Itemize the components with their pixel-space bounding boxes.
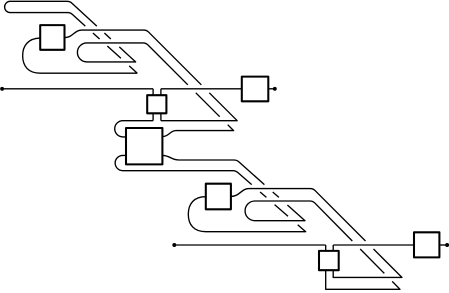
- wire C'-diagonal segment below lower line, corner, wire1' back to K2 bottom-right stub: [333, 249, 402, 277]
- wire S1-diagonal segment between main line and wire1: [196, 93, 220, 117]
- wire C-diagonal segment below main line, corner, wire1 back to small box K1 stub: [161, 93, 237, 121]
- wire main upper line from left terminal to small box K1: [2, 88, 153, 90]
- wire lower main line from box B3' to right terminal: [439, 244, 447, 246]
- coupon B2: [206, 184, 231, 210]
- wire S1'-diagonal segment between lower line and wire1': [360, 249, 384, 273]
- terminal dot upper-left: [0, 87, 4, 91]
- wire diagonal a2 segment from E-bottom corner up to under S1-bottom: [129, 66, 137, 73]
- wire lower main line from left terminal to small box K2: [174, 244, 325, 246]
- wire D2 diagonal segment between S1'-top and S1'-bottom: [275, 205, 288, 217]
- terminal dot lower-left: [172, 243, 176, 247]
- wire diagonal a2 segment between S1-bottom and S1-top: [107, 46, 121, 58]
- wire small box K1 bottom-right stub: [160, 113, 162, 120]
- wire main upper line from box B3 to right terminal: [268, 88, 275, 90]
- coupon K2 (small box on lower line): [319, 251, 339, 270]
- wire upper hook loop (top cap strand): [5, 1, 97, 26]
- coupon B1: [40, 25, 64, 50]
- wire D2 diagonal segment between C'-line and S1'-top: [260, 192, 266, 197]
- wire small box K2 top-left stub: [325, 245, 327, 251]
- wire small box K1 top-right stub: [160, 89, 162, 95]
- wire D1: box U right-bottom s-curve, horizontal, diagonal to under C'-line: [162, 155, 264, 184]
- terminal dot lower-right: [445, 243, 449, 247]
- wire small box K1 bottom-left stub: [152, 113, 154, 120]
- wire diagonal a1 segment into S1-bottom corner, S1 stadium and S1-top line: [77, 43, 147, 62]
- wire diagonal a1 segment between C-line and S1-top: [104, 33, 110, 39]
- wire U-turn from box U left-bottom, return line, D2 start corner: [115, 155, 252, 184]
- wire S1-diagonal landing, horizontal left, s-curve into box U right-top: [162, 125, 233, 137]
- wire E loop: box B1 left side, big arc, bottom line to a2 corner: [23, 38, 138, 73]
- coupon U (central box): [126, 128, 162, 164]
- wire S1'-diagonal landing, bottom line back to small box K2 bottom-left stub: [326, 270, 400, 289]
- wire main upper line from small box K1 to box B3: [161, 88, 242, 90]
- coupon B3: [242, 77, 268, 102]
- wire C' strand: box B2 right s-curve, horizontal, C'-diagonal to lower line: [231, 189, 366, 241]
- wire D1 diagonal landing, S1'-bottom, stadium cap, S1'-top line: [245, 201, 315, 221]
- wire small box K1 top-left stub: [152, 89, 154, 95]
- terminal dot upper-right: [273, 87, 277, 91]
- wire C strand: box B1 right side s-curve, horizontal, C-diagonal to line: [65, 30, 202, 85]
- wire U-turn from K1 bottom-left stub into box U left-top: [115, 121, 153, 137]
- wire S1'-diagonal from S1'-top corner down to lower main line: [315, 203, 353, 241]
- wire small box K2 top-right stub: [332, 245, 334, 251]
- wire D2 diagonal landing on E'-bottom, line left, big arc up to box B2 left: [188, 197, 305, 232]
- coupon B3': [414, 232, 439, 257]
- wire lower main line from small box K2 to box B3': [333, 244, 414, 246]
- coupon K1 (small box on upper line): [147, 95, 166, 113]
- wire D1 diagonal segment between C'-line and S1'-top: [273, 192, 279, 197]
- wire diagonal a2 segment between S1-top and C-line: [93, 33, 100, 39]
- wire S1-diagonal segment from S1-top corner down to line y=88.8: [148, 45, 188, 85]
